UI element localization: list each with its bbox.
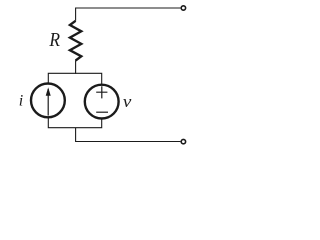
resistor R zigzag (70, 21, 81, 61)
voltage source V circle (85, 85, 119, 119)
voltage source plus sign (96, 86, 107, 98)
wire rectangle bottom edge with side stubs (48, 117, 101, 128)
svg-text:R: R (48, 29, 60, 51)
voltage source minus sign (96, 111, 108, 113)
terminal top right (181, 6, 185, 10)
current source I circle (31, 84, 65, 118)
current source arrow shaft (47, 89, 49, 116)
current source arrow head (46, 87, 51, 95)
wire resistor bottom stub (75, 60, 77, 74)
wire top: resistor top stub, corner, horizontal to terminal (76, 8, 181, 21)
terminal bottom right (181, 139, 185, 143)
wire rectangle top edge with side stubs (48, 73, 101, 85)
svg-text:i: i (19, 92, 23, 109)
svg-text:v: v (123, 92, 131, 111)
wire bottom: drop from rectangle, corner, horizontal to terminal (76, 128, 181, 142)
